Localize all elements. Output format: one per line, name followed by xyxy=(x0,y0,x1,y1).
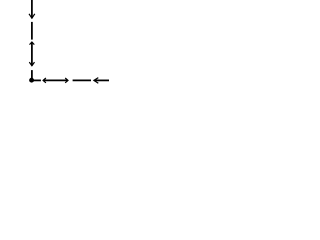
wire: vertical double-arrow shaft xyxy=(31,42,33,66)
wire: horizontal segment 2 xyxy=(73,79,91,81)
arrowhead: up barbs of vertical double arrow xyxy=(30,42,35,45)
arrowhead: downward arrow barbs on top branch xyxy=(29,14,35,18)
arrowhead: right barbs of horizontal double arrow xyxy=(65,78,68,83)
wire: vertical segment into node xyxy=(31,70,33,80)
arrowhead: leftward arrow barbs on right branch xyxy=(94,78,98,84)
wire: horizontal segment from node xyxy=(32,79,41,81)
node junction dot xyxy=(29,78,34,83)
arrowhead: down barbs of vertical double arrow xyxy=(29,62,34,66)
wire: vertical segment entering from top edge xyxy=(31,0,33,18)
wire: horizontal double-arrow shaft xyxy=(43,79,68,81)
wire: horizontal segment to right edge xyxy=(94,79,109,81)
wire: vertical segment 2 xyxy=(31,22,33,40)
arrowhead: left barbs of horizontal double arrow xyxy=(43,78,46,83)
